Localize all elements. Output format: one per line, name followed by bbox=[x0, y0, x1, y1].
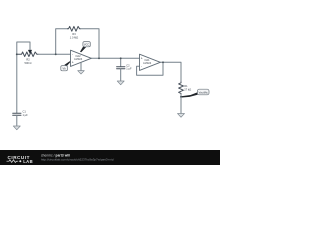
wire op-amp1 output bbox=[91, 57, 139, 59]
resistor R3 bbox=[68, 26, 81, 31]
svg-text:+: + bbox=[72, 61, 74, 65]
CircuitLab logo bbox=[7, 155, 34, 164]
ground (op-amp1) bbox=[78, 71, 85, 74]
VCC flag (op-amp1 positive supply) bbox=[80, 42, 90, 53]
svg-text:VCC: VCC bbox=[84, 42, 90, 46]
wire pot wiper loop bbox=[17, 42, 30, 54]
watermark bar bbox=[0, 150, 220, 165]
svg-text:LM324: LM324 bbox=[74, 57, 82, 61]
capacitor C1 bbox=[13, 113, 21, 115]
ground (C1) bbox=[13, 126, 20, 130]
svg-text:1.0 MΩ: 1.0 MΩ bbox=[70, 36, 78, 40]
wire R2 to op-amp bbox=[38, 53, 71, 55]
wire op-amp2 feedback bbox=[137, 62, 163, 75]
wire feedback loop R3 right + down to output bbox=[81, 29, 100, 59]
svg-text:LM324: LM324 bbox=[143, 61, 151, 65]
wire feedback loop R3 left vertical bbox=[56, 29, 68, 55]
svg-text:R3: R3 bbox=[72, 32, 76, 36]
resistor R1 bbox=[179, 82, 184, 94]
capacitor C2 bbox=[117, 67, 125, 69]
ground (R1) bbox=[178, 114, 185, 118]
potentiometer R2 wiper arrow bbox=[28, 50, 32, 54]
label R2 value bbox=[25, 58, 32, 65]
svg-text:-: - bbox=[72, 53, 73, 57]
svg-text:http://circuitlab.com/circuit/: http://circuitlab.com/circuit/uh5237kc9a… bbox=[41, 157, 114, 161]
svg-text:-: - bbox=[141, 65, 142, 69]
svg-text:+: + bbox=[141, 57, 143, 61]
op-amp OA2 bbox=[71, 50, 92, 70]
op-amp1 negative supply wire bbox=[80, 62, 82, 70]
svg-text:1 µF: 1 µF bbox=[126, 67, 132, 71]
wire C1 to ground bbox=[16, 115, 18, 126]
svg-text:27 kΩ: 27 kΩ bbox=[184, 87, 191, 91]
wire op-amp2 output to R1 bbox=[160, 62, 181, 82]
resistor R2 (potentiometer body) bbox=[17, 52, 38, 57]
junction node dots bbox=[16, 53, 18, 55]
wire C2 to ground bbox=[120, 69, 122, 81]
svg-text:R2: R2 bbox=[26, 58, 30, 62]
svg-text:R1: R1 bbox=[184, 84, 188, 88]
label C1 value bbox=[23, 110, 29, 117]
label R3 value bbox=[70, 32, 78, 39]
svg-text:C2: C2 bbox=[126, 63, 130, 67]
label C2 value bbox=[126, 63, 132, 70]
svg-text:VoutMic: VoutMic bbox=[199, 90, 209, 94]
Vb net flag (op-amp1 + input) bbox=[61, 61, 71, 71]
svg-text:500 Ω: 500 Ω bbox=[25, 61, 32, 65]
svg-text:1 µF: 1 µF bbox=[23, 113, 29, 117]
wire R1 to ground bbox=[180, 94, 182, 114]
op-amp OA1 bbox=[140, 54, 161, 70]
wire C1 branch down bbox=[16, 54, 18, 113]
wire C2 branch down bbox=[120, 58, 122, 66]
svg-text:C1: C1 bbox=[23, 110, 27, 114]
ground (C2) bbox=[117, 81, 124, 85]
svg-text:LAB: LAB bbox=[23, 159, 33, 164]
node VoutMic flag bbox=[181, 89, 209, 97]
label R1 value bbox=[184, 84, 191, 91]
svg-text:Vb: Vb bbox=[63, 66, 67, 70]
